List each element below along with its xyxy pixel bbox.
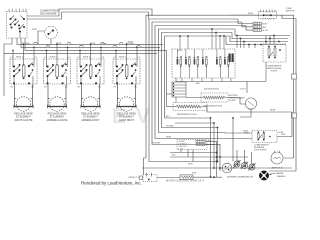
wire gril leads xyxy=(186,97,203,99)
svg-text:NOIR: NOIR xyxy=(56,43,62,45)
svg-text:NOIR: NOIR xyxy=(177,50,182,52)
wire hops y45 xyxy=(34,42,141,47)
wire bus step2 xyxy=(232,33,288,39)
svg-text:SECONDAIRE: SECONDAIRE xyxy=(40,12,57,15)
svg-text:BLC: BLC xyxy=(172,155,176,157)
outlet prise box xyxy=(143,175,157,182)
switch verrouillage porte xyxy=(263,44,286,62)
tick row under connector xyxy=(263,18,273,19)
svg-text:ROUGE: ROUGE xyxy=(166,126,174,128)
resistor micro xyxy=(180,175,193,180)
inline resistor box 3 xyxy=(253,29,261,32)
wire bus step3 xyxy=(230,36,288,42)
svg-text:VERROUILLAGE: VERROUILLAGE xyxy=(229,96,245,99)
connector commutateur secondaire xyxy=(7,9,28,38)
connector inline lamp xyxy=(259,10,277,19)
terminal strip TB1 xyxy=(172,82,186,97)
svg-text:CHASSIS: CHASSIS xyxy=(277,175,286,178)
svg-text:NOIR: NOIR xyxy=(270,109,276,111)
svg-text:NOIR: NOIR xyxy=(90,43,96,45)
wire bus step4 xyxy=(226,36,286,45)
svg-text:REGLAGE INFINI: REGLAGE INFINI xyxy=(117,112,136,115)
svg-text:BL.OR: BL.OR xyxy=(262,30,268,32)
splice right edge 2 xyxy=(292,113,297,118)
oven lamp ampoule xyxy=(271,152,283,164)
wire feeder y51 xyxy=(25,38,167,107)
svg-text:FOUR PORTE: FOUR PORTE xyxy=(254,149,267,151)
svg-text:T=750: T=750 xyxy=(240,88,247,90)
wire top bus B xyxy=(27,12,149,19)
wire bus line 1 xyxy=(144,15,259,174)
wire element leads 4 xyxy=(116,84,119,86)
surface element E4 xyxy=(117,85,136,112)
surface element E3 xyxy=(81,85,100,112)
svg-text:AMPOULE: AMPOULE xyxy=(272,166,283,169)
thermostat circle xyxy=(222,163,232,173)
wire relay stubs K6 xyxy=(224,49,226,58)
resistor resistance four xyxy=(173,103,207,111)
surface element E2 xyxy=(47,85,66,112)
svg-text:BLC: BLC xyxy=(166,116,170,118)
infinite switch S4 xyxy=(113,57,141,89)
wire relay box stubs xyxy=(180,150,182,153)
svg-text:ROUGE: ROUGE xyxy=(22,43,30,45)
wire mid line y123 xyxy=(175,122,214,124)
wire relay stubs K5 xyxy=(216,49,218,58)
wire bottom row xyxy=(157,177,180,179)
svg-text:ET ELEMENT: ET ELEMENT xyxy=(119,117,134,119)
wire element leads 2 xyxy=(47,84,50,86)
wire terminal feeds xyxy=(232,118,234,162)
svg-text:NOIR: NOIR xyxy=(32,29,37,31)
wire bus line 4 xyxy=(155,26,252,139)
wire strip lead xyxy=(167,93,173,95)
svg-text:MICRO-DISJONCTEUR 15 A: MICRO-DISJONCTEUR 15 A xyxy=(166,179,204,182)
svg-text:NOIR: NOIR xyxy=(83,57,89,59)
wire y168 long xyxy=(142,167,292,169)
switch retarde four porte xyxy=(252,131,277,143)
svg-text:REGLAGE INFINI: REGLAGE INFINI xyxy=(81,112,100,115)
svg-text:PRISE 120 V ~: PRISE 120 V ~ xyxy=(129,177,141,179)
terminal lug 2 xyxy=(241,162,249,170)
svg-text:NOIR: NOIR xyxy=(16,57,22,59)
wire feeder y54 xyxy=(4,52,157,54)
wire bus line 5 xyxy=(159,29,236,133)
wire left edge xyxy=(4,38,12,96)
svg-text:NOIR: NOIR xyxy=(262,24,267,26)
wire connector right 2 xyxy=(269,15,296,171)
inline resistor box 1 xyxy=(253,22,261,25)
wire buzzer leads xyxy=(38,31,45,44)
wire bus line 3 xyxy=(152,22,242,145)
svg-text:NOIR: NOIR xyxy=(279,132,284,134)
wire ERC bottom collect xyxy=(176,78,266,82)
wire bus line 2 xyxy=(149,19,238,162)
svg-text:Rendered by LeadVenture, Inc.: Rendered by LeadVenture, Inc. xyxy=(81,181,142,186)
relay K5 xyxy=(216,56,221,67)
relay K4 xyxy=(202,56,207,67)
wire drops bus right xyxy=(237,36,274,49)
wire box2 lead xyxy=(242,22,253,27)
surface element E1 xyxy=(14,85,33,112)
terminal lug 1 xyxy=(233,160,241,168)
svg-text:NOIR: NOIR xyxy=(128,42,133,44)
wire bottom right links xyxy=(225,132,252,135)
buzzer circle xyxy=(45,26,58,39)
resistor resistance gril xyxy=(201,93,228,102)
svg-text:ET ELEMENT: ET ELEMENT xyxy=(16,117,31,119)
svg-text:NOIR: NOIR xyxy=(248,13,253,15)
svg-text:RESISTANCE FOUR: RESISTANCE FOUR xyxy=(177,113,197,116)
svg-text:ROUGE: ROUGE xyxy=(153,143,161,145)
svg-text:T-750: T-750 xyxy=(248,109,252,111)
wire box1 lead xyxy=(238,19,253,24)
relay box retard xyxy=(177,140,207,150)
wire bus line 6 xyxy=(162,33,233,128)
wire q right xyxy=(277,112,292,137)
relay K2 xyxy=(185,56,190,67)
svg-text:AVANT GAUCHE: AVANT GAUCHE xyxy=(15,119,33,122)
svg-text:PORTE: PORTE xyxy=(271,70,278,72)
wire mid drop 1 xyxy=(210,118,212,177)
terminal lug 3 xyxy=(248,163,256,171)
relay K3 xyxy=(194,56,199,67)
svg-text:DISJONCTEUR: DISJONCTEUR xyxy=(204,88,219,90)
wire risers switch 1 xyxy=(12,50,14,59)
wire relay stubs K4 xyxy=(202,49,204,58)
svg-text:NOIR: NOIR xyxy=(188,164,193,166)
arrow masse chassis xyxy=(270,173,276,175)
svg-text:PORTE: PORTE xyxy=(229,100,237,102)
wire feeder y48 xyxy=(21,38,160,47)
wire bus step1 xyxy=(235,29,290,36)
relay K6 xyxy=(224,56,229,67)
svg-text:ET ELEMENT: ET ELEMENT xyxy=(83,117,98,119)
svg-text:ARRIERE GAUCHE: ARRIERE GAUCHE xyxy=(47,119,68,122)
wire y157 xyxy=(170,156,248,158)
transformer dark pair xyxy=(229,54,231,63)
wire four right lead xyxy=(201,107,292,113)
wire risers switch 3 xyxy=(79,50,81,59)
wire mid drop 2 xyxy=(213,123,215,168)
infinite switch S3 xyxy=(77,57,105,89)
inline box small 2 xyxy=(196,143,205,145)
splice right edge 1 xyxy=(292,74,297,79)
wire ERC bottom stubs xyxy=(182,78,231,82)
svg-text:NOIR: NOIR xyxy=(50,57,56,59)
svg-text:BLK: BLK xyxy=(196,83,201,85)
svg-text:REGLAGE INFINI: REGLAGE INFINI xyxy=(14,112,33,115)
wire relay stubs K1 xyxy=(176,49,178,58)
relay K1 xyxy=(177,56,182,67)
wire four left lead xyxy=(167,106,177,108)
wire bus line 7 xyxy=(165,36,231,118)
svg-text:BORNIER D'ALIMENTATION: BORNIER D'ALIMENTATION xyxy=(227,175,254,178)
svg-text:ARRIERE DROIT: ARRIERE DROIT xyxy=(81,119,100,122)
wire drops into ERC xyxy=(180,29,224,49)
wire box3 lead xyxy=(246,26,253,31)
svg-text:MASSE: MASSE xyxy=(277,172,285,175)
wire relay stubs K3 xyxy=(193,49,195,58)
wire risers switch 4 xyxy=(115,50,117,59)
svg-text:NOIR: NOIR xyxy=(166,137,172,139)
wire risers switch 2 xyxy=(46,50,48,59)
wire thermostat leads xyxy=(220,167,222,169)
svg-text:REGLAGE INFINI: REGLAGE INFINI xyxy=(48,112,67,115)
control board ERC xyxy=(172,49,235,78)
wire motor lead xyxy=(240,109,251,117)
wire y152 xyxy=(170,152,217,154)
wire mid drop 3 xyxy=(217,128,219,162)
inline resistor box 2 xyxy=(253,26,261,29)
svg-text:NOIR: NOIR xyxy=(244,132,249,134)
wire through connector xyxy=(230,14,259,16)
wire connector right xyxy=(277,15,294,158)
motor door lock xyxy=(245,98,256,109)
infinite switch S1 xyxy=(10,57,38,89)
svg-text:AMP.FOUR: AMP.FOUR xyxy=(286,9,295,12)
chassis ground motor xyxy=(259,171,269,181)
infinite switch S2 xyxy=(44,57,72,89)
wire element leads 1 xyxy=(13,84,16,86)
wire element leads 3 xyxy=(80,84,83,86)
svg-text:AVANT DROIT: AVANT DROIT xyxy=(119,119,135,122)
svg-text:NOIR: NOIR xyxy=(119,57,125,59)
wire bottom row 2 xyxy=(193,176,222,178)
svg-text:ET ELEMENT: ET ELEMENT xyxy=(50,117,65,119)
wire relay stubs K2 xyxy=(185,49,187,58)
wire relay right leads xyxy=(205,141,217,177)
wire feeder y45 xyxy=(17,38,163,44)
wire top bus A xyxy=(27,9,152,16)
inline box small 1 xyxy=(196,140,205,142)
